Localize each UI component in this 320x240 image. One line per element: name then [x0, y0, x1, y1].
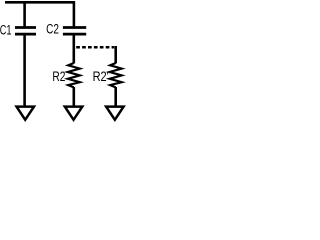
ground right [106, 107, 124, 120]
wire C2 to R2 vertical [73, 35, 76, 63]
svg-text:R2': R2' [93, 69, 109, 85]
svg-text:C2: C2 [46, 22, 59, 38]
wire dashed horizontal [76, 46, 114, 49]
wire C1 upper vertical [23, 1, 26, 27]
resistor R2 [68, 63, 80, 87]
wire R2' upper vertical [114, 46, 117, 63]
ground middle [65, 107, 83, 120]
resistor R2' [110, 63, 122, 87]
wire C1 lower vertical [23, 35, 26, 107]
wire R2' lower vertical [114, 87, 117, 107]
capacitor C1 [15, 28, 36, 35]
svg-text:C1: C1 [0, 23, 12, 39]
capacitor C2 [63, 28, 86, 35]
wire C2 upper vertical [73, 1, 76, 27]
wire R2 lower vertical [73, 87, 76, 107]
ground left [17, 107, 35, 120]
svg-text:R2: R2 [52, 69, 65, 85]
wire top horizontal [5, 1, 74, 4]
